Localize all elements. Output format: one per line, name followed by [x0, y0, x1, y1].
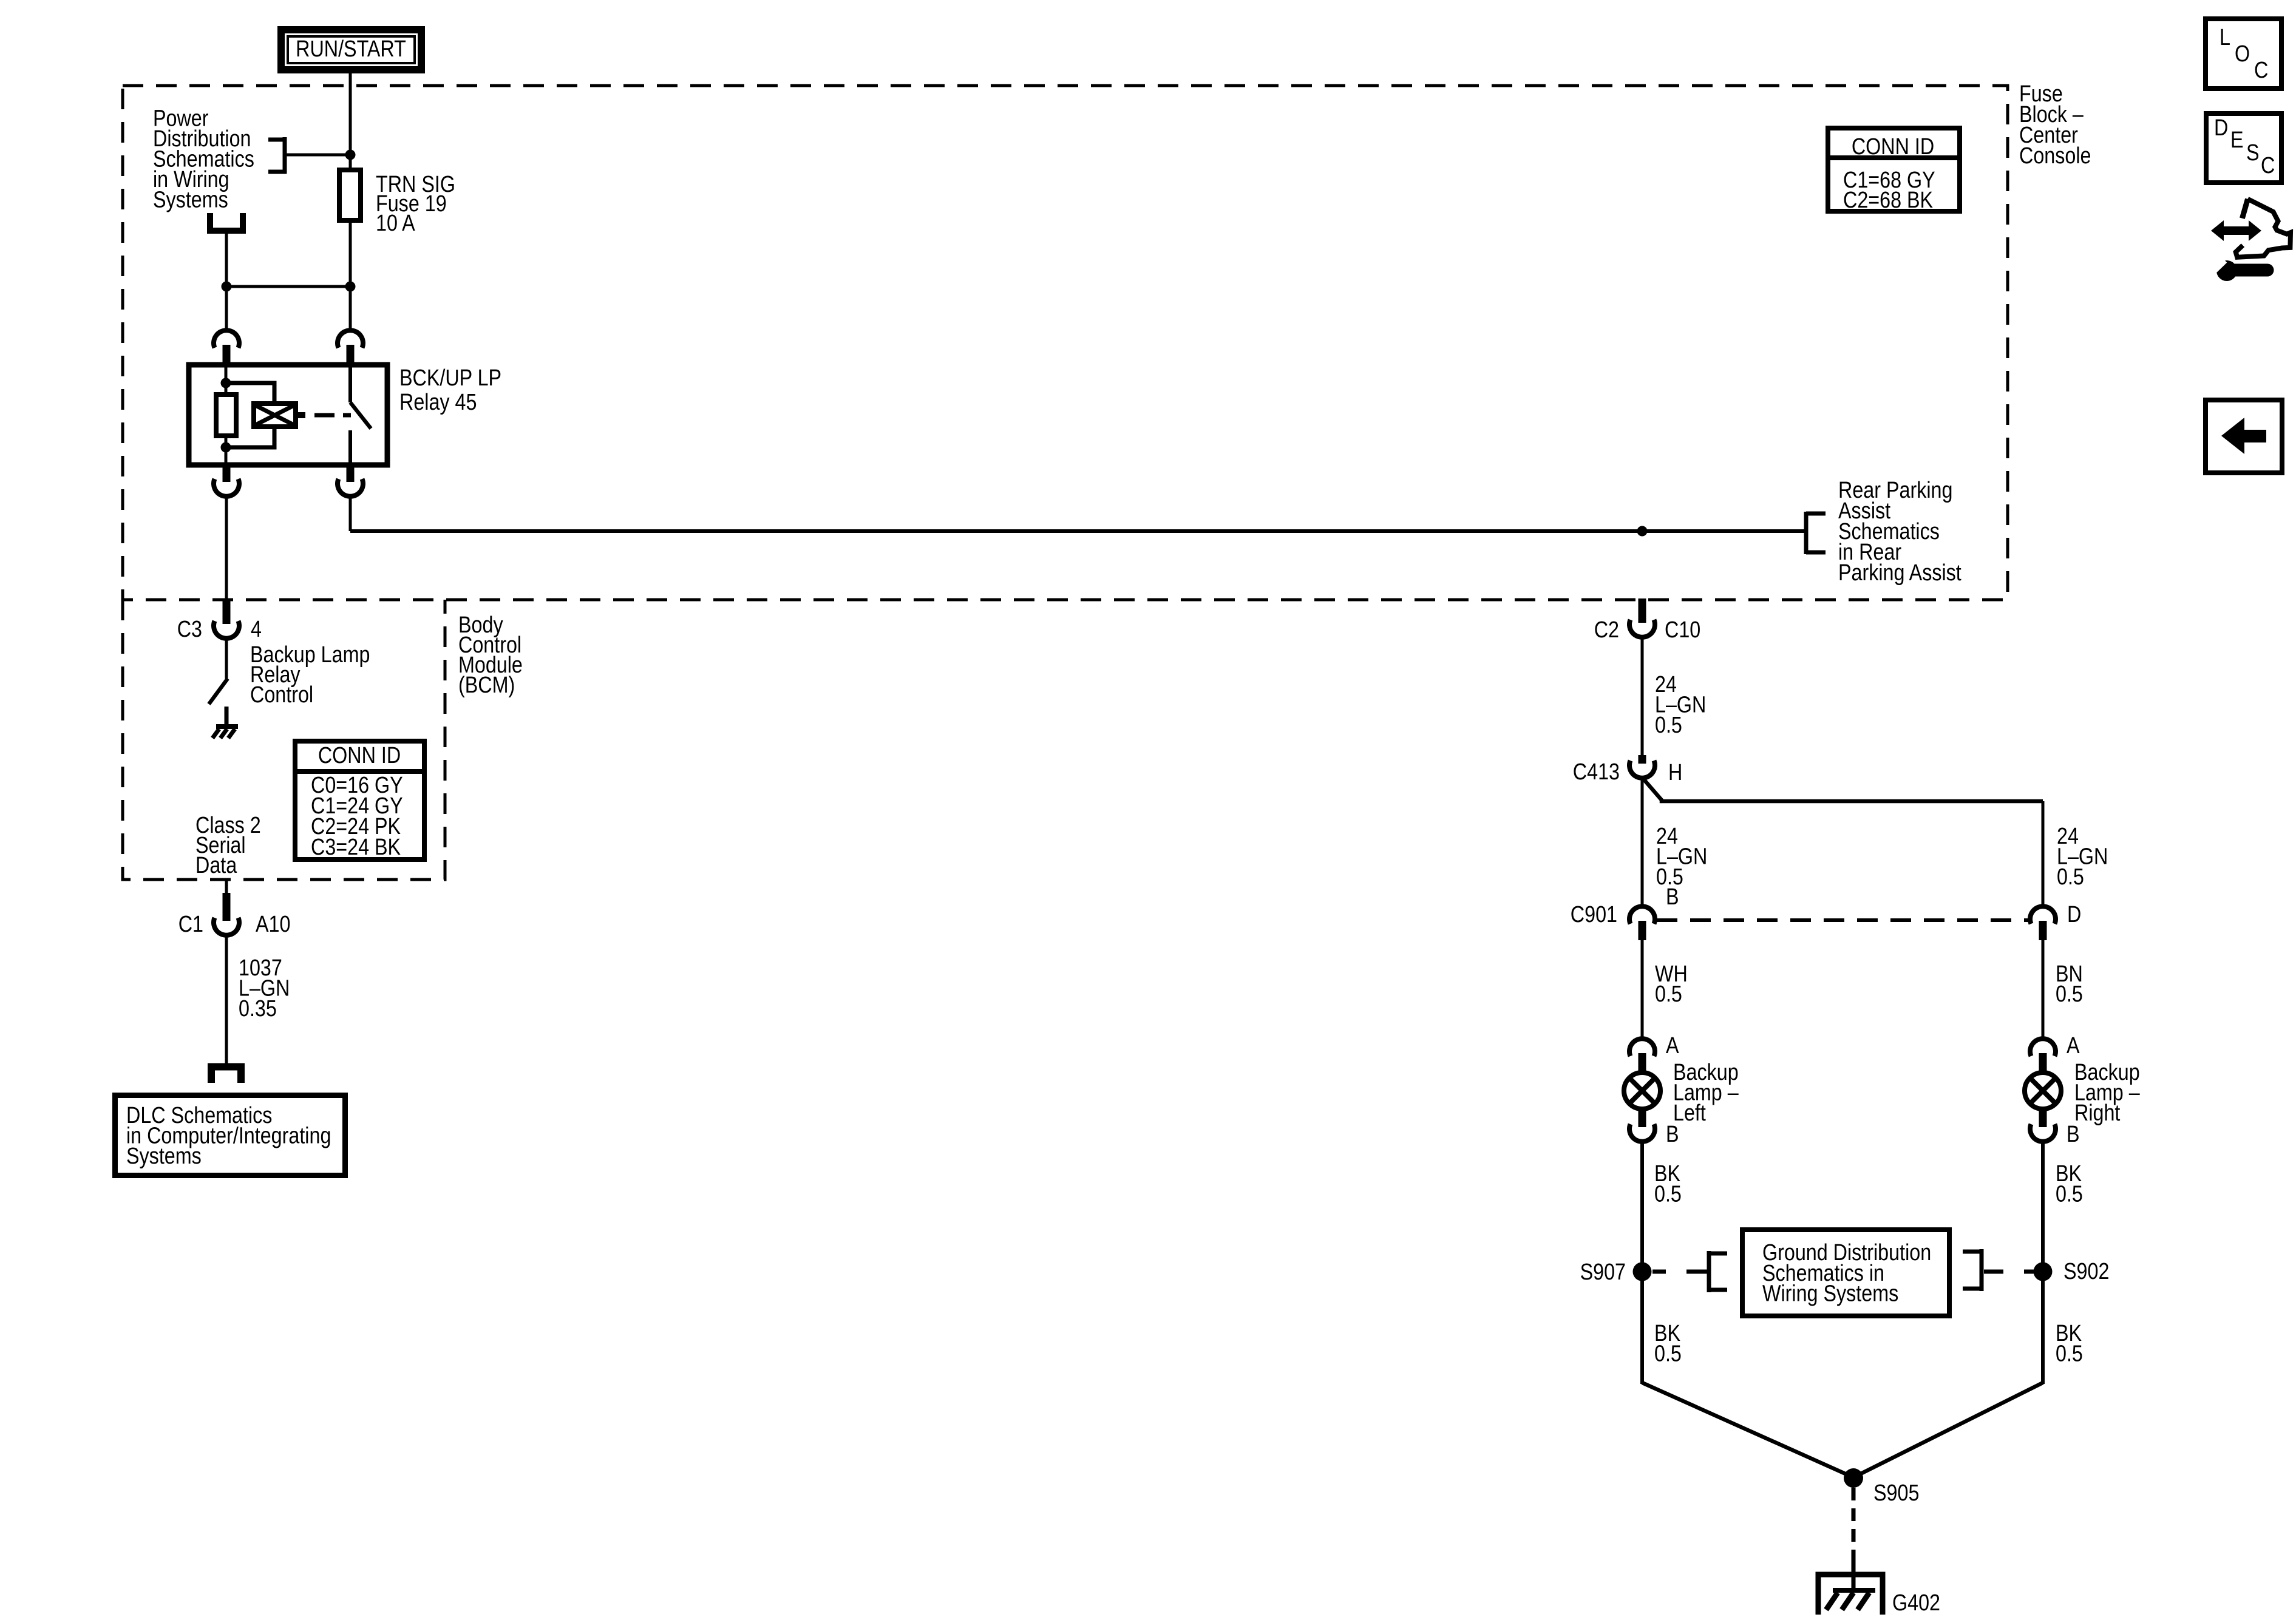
svg-text:A: A: [2067, 1033, 2080, 1059]
svg-text:C1: C1: [178, 912, 203, 937]
svg-text:4: 4: [251, 617, 262, 642]
svg-text:CONN ID: CONN ID: [1852, 134, 1934, 160]
svg-text:H: H: [1668, 760, 1682, 785]
svg-text:C901: C901: [1571, 902, 1617, 927]
svg-text:Systems: Systems: [153, 187, 228, 212]
svg-text:BCK/UP LP: BCK/UP LP: [399, 365, 501, 391]
svg-text:0.5: 0.5: [1655, 981, 1682, 1007]
svg-text:Console: Console: [2019, 143, 2091, 169]
svg-text:C3=24 BK: C3=24 BK: [311, 835, 401, 860]
svg-text:Left: Left: [1673, 1100, 1706, 1126]
svg-text:Wiring Systems: Wiring Systems: [1762, 1281, 1898, 1306]
svg-text:10 A: 10 A: [376, 211, 415, 236]
svg-text:G402: G402: [1892, 1590, 1940, 1616]
svg-text:Right: Right: [2074, 1100, 2121, 1126]
svg-text:C2=68 BK: C2=68 BK: [1843, 188, 1934, 213]
svg-text:B: B: [1666, 884, 1679, 910]
svg-text:L: L: [2220, 25, 2230, 50]
svg-text:Data: Data: [195, 853, 237, 878]
svg-text:A10: A10: [256, 912, 290, 937]
svg-text:A: A: [1666, 1033, 1679, 1059]
svg-text:RUN/START: RUN/START: [296, 36, 406, 62]
svg-text:0.5: 0.5: [2057, 864, 2084, 890]
svg-text:0.5: 0.5: [1654, 1181, 1682, 1207]
svg-text:0.5: 0.5: [2056, 1181, 2083, 1207]
svg-text:C2: C2: [1594, 617, 1619, 643]
svg-text:0.35: 0.35: [239, 996, 277, 1022]
svg-text:Systems: Systems: [126, 1144, 202, 1169]
svg-text:D: D: [2067, 902, 2081, 927]
svg-text:0.5: 0.5: [1655, 713, 1682, 738]
svg-text:C413: C413: [1573, 759, 1620, 785]
svg-text:0.5: 0.5: [1654, 1341, 1682, 1366]
svg-text:E: E: [2230, 127, 2244, 153]
svg-text:0.5: 0.5: [2056, 981, 2083, 1007]
svg-text:Control: Control: [250, 682, 313, 708]
svg-text:C: C: [2254, 58, 2268, 83]
svg-text:C10: C10: [1665, 617, 1700, 643]
svg-text:O: O: [2235, 41, 2250, 67]
svg-text:C: C: [2261, 153, 2275, 178]
svg-text:D: D: [2214, 115, 2228, 141]
svg-text:(BCM): (BCM): [458, 673, 515, 698]
svg-text:Relay 45: Relay 45: [399, 390, 477, 415]
svg-text:S905: S905: [1873, 1480, 1919, 1506]
svg-text:CONN ID: CONN ID: [318, 743, 401, 768]
svg-text:C3: C3: [177, 617, 202, 642]
svg-text:S: S: [2246, 140, 2260, 166]
svg-text:S902: S902: [2063, 1259, 2109, 1284]
svg-text:0.5: 0.5: [2056, 1341, 2083, 1366]
svg-text:Parking Assist: Parking Assist: [1838, 560, 1961, 586]
svg-text:S907: S907: [1580, 1259, 1626, 1285]
